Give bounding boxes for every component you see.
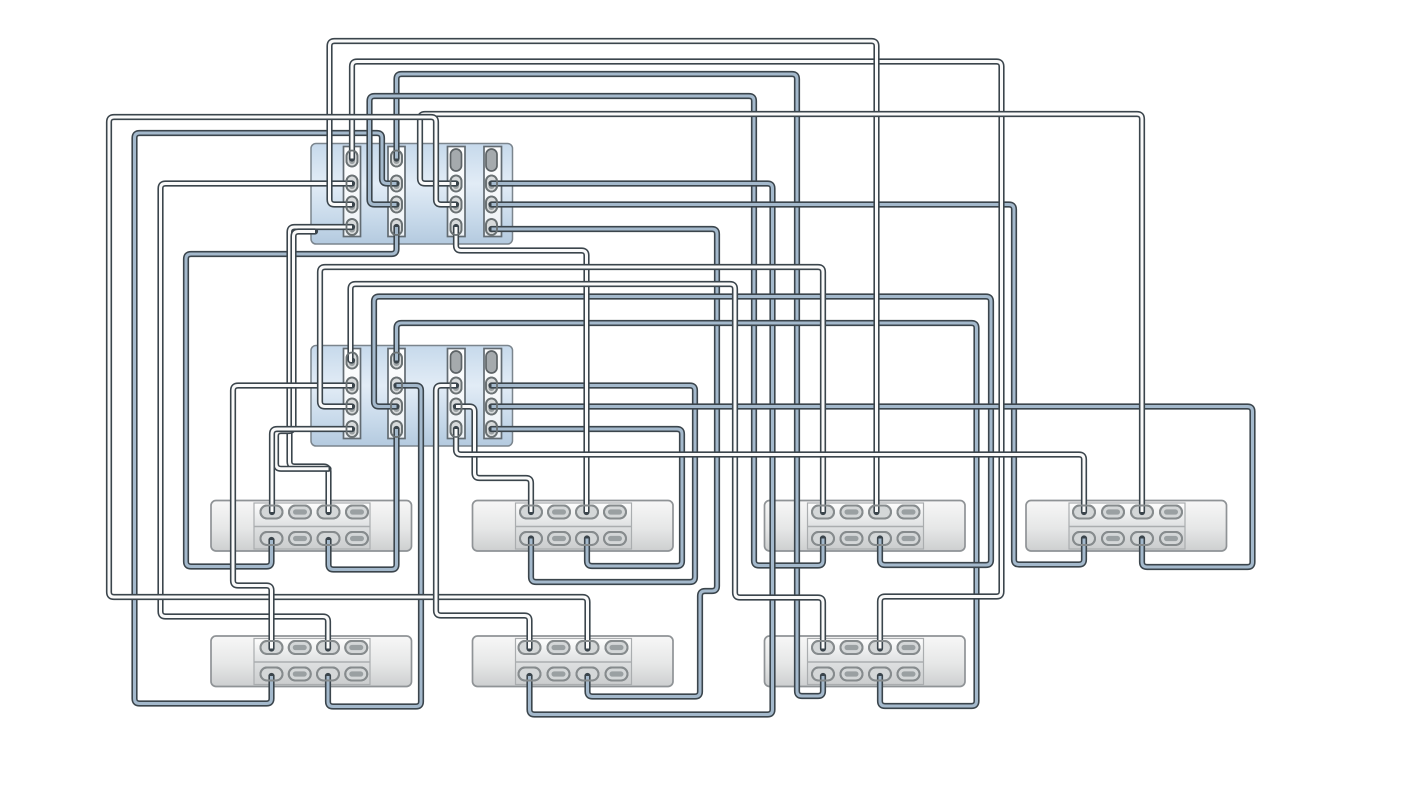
shelf IOM ports (all shelves): [261, 506, 1183, 681]
cable C2: controller1 slotC port2 to shelf4 top port3: [420, 114, 1142, 512]
cable C4: controller1 slotC port4 to shelf2 top port3: [456, 227, 587, 512]
cable A1p: controller2 slotA port1 to shelf7 top port1: [351, 284, 824, 649]
cable B3: controller1 slotB port3 to shelf3 bottom port1: [370, 96, 824, 566]
controller 1 (top storage controller): [311, 144, 513, 245]
cable B1: controller1 slotB port1 to shelf7 bottom port1: [397, 74, 824, 696]
cable D2p: controller2 slotD port2 to shelf2 bottom port1: [492, 386, 696, 583]
disk shelf 3 (row 1, #3): [765, 501, 966, 552]
cable B1p: controller2 slotB port1 to shelf7 bottom port3: [397, 323, 977, 706]
cable B3p: controller2 slotB port3 to shelf3 bottom port3: [374, 297, 991, 566]
cable C4p: controller2 slotC port4 to shelf4 top port1: [456, 429, 1084, 512]
cable A2p: controller2 slotA port2 to shelf5 top port1: [233, 386, 352, 649]
cable D3p: controller2 slotD port3 to shelf4 bottom port3: [492, 407, 1253, 568]
disk shelf 7 (row 2, #3): [765, 636, 966, 687]
cable B2: controller1 slotB port2 to shelf5 bottom port1: [135, 133, 397, 704]
cable C2p: controller2 slotC port2 to shelf6 top port1: [436, 386, 530, 649]
unused tall port, controller 2 slot D: [486, 351, 497, 373]
disk shelf 6 (row 2, #2): [473, 636, 674, 687]
cable D4: controller1 slotD port4 to shelf6 bottom port3: [492, 229, 718, 697]
cable B4: controller1 slotB port4 to shelf1 bottom port1: [186, 227, 397, 567]
disk shelf 1 (row 1, #1): [211, 501, 412, 552]
cable B2p: controller2 slotB port2 to shelf5 bottom port3: [328, 386, 421, 707]
port rings overdraw: [261, 151, 1183, 681]
unused tall port, controller 1 slot D: [486, 149, 497, 171]
cable D4p: controller2 slotD port4 to shelf2 bottom port3: [492, 429, 683, 566]
controller HBA ports: [347, 151, 498, 438]
controller 2 (bottom storage controller): [311, 346, 513, 447]
cable A3p: controller2 slotA port3 to shelf3 top port1: [320, 267, 823, 512]
cable A4: controller1 slotA port4 to shelf1 top port3: [290, 227, 353, 512]
doubled white run beside cable A4: [276, 232, 329, 469]
cable D2: controller1 slotD port2 to shelf6 bottom port1: [492, 184, 773, 715]
cable A2: controller1 slotA port2 to shelf5 top port3: [161, 184, 353, 649]
cable A3: controller1 slotA port3 to shelf3 top port3: [330, 41, 877, 512]
disk shelf 5 (row 2, #1): [211, 636, 412, 687]
cable B4p: controller2 slotB port4 to shelf1 bottom port3: [329, 429, 397, 570]
cable A1: controller1 slotA port1 to shelf7 top port3: [352, 62, 1002, 649]
cable A4p: controller2 slotA port4 to shelf1 top port1: [272, 429, 352, 512]
unused tall port, controller 2 slot C: [451, 351, 462, 373]
unused tall port, controller 1 slot C: [451, 149, 462, 171]
cable D3: controller1 slotD port3 to shelf4 bottom port1: [492, 205, 1085, 565]
disk shelf 4 (row 1, #4): [1026, 501, 1227, 552]
cable C3: controller1 slotC port3 to shelf6 top port3: [109, 117, 588, 649]
disk shelf 2 (row 1, #2): [473, 501, 674, 552]
cable C3p: controller2 slotC port3 to shelf2 top port1: [456, 407, 531, 513]
